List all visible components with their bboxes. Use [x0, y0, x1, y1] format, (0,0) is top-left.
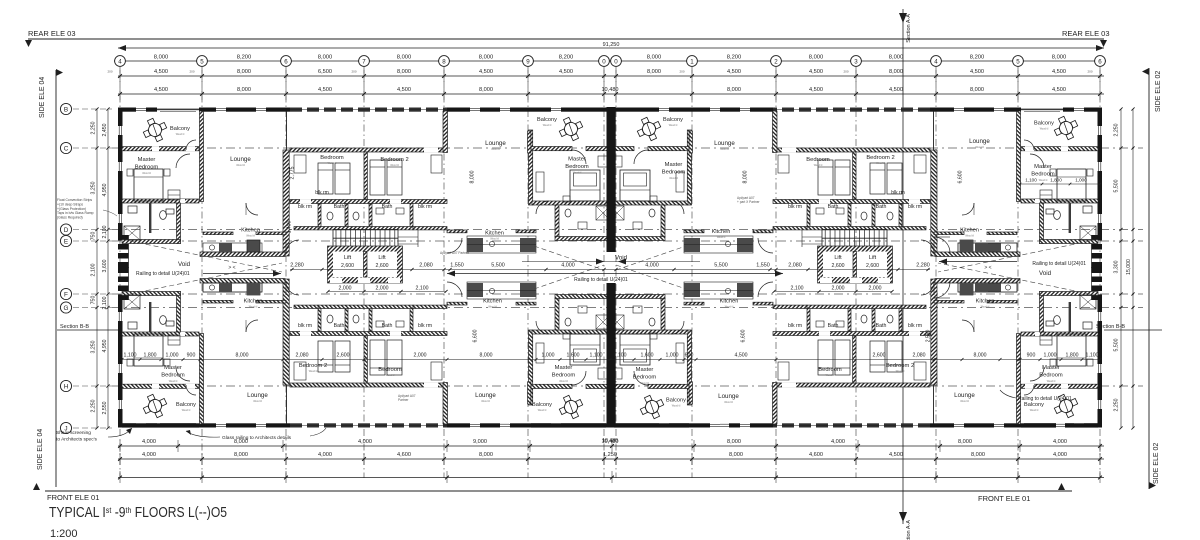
- svg-text:1,400: 1,400: [287, 221, 293, 234]
- svg-text:1,100: 1,100: [1086, 353, 1099, 359]
- svg-text:1,000: 1,000: [1075, 178, 1087, 183]
- side elevation 04 marker top: [56, 69, 63, 76]
- svg-text:> <: > <: [228, 265, 235, 271]
- svg-text:2,600: 2,600: [337, 353, 350, 359]
- side elevation 02 marker top: [1142, 68, 1149, 75]
- svg-text:4,000: 4,000: [358, 439, 372, 445]
- svg-text:4,500: 4,500: [154, 87, 168, 93]
- svg-text:1,800: 1,800: [144, 353, 157, 359]
- svg-text:Bedroom: Bedroom: [662, 170, 686, 176]
- grid bubble 5: [197, 56, 208, 67]
- svg-text:8,000: 8,000: [236, 353, 249, 359]
- svg-text:2,600: 2,600: [341, 263, 354, 269]
- svg-text:Void: Void: [615, 255, 628, 262]
- svg-text:2,600: 2,600: [866, 263, 879, 269]
- svg-text:8,000: 8,000: [237, 87, 251, 93]
- svg-text:3,300: 3,300: [1114, 260, 1120, 273]
- svg-text:1,800: 1,800: [1066, 353, 1079, 359]
- svg-text:+(10 deep Straps: +(10 deep Straps: [57, 202, 83, 206]
- rear elevation marker right: [1100, 40, 1107, 47]
- grid row bubble G: [60, 302, 71, 313]
- svg-text:200: 200: [679, 70, 684, 74]
- kitchen counter right-end top: [958, 243, 1017, 252]
- staircase right core: [802, 230, 887, 248]
- side elevation 04 line: [55, 70, 57, 487]
- svg-text:Master: Master: [164, 365, 182, 371]
- lift dimension row right: [774, 291, 892, 293]
- svg-text:8,200: 8,200: [559, 55, 574, 61]
- svg-text:1,100: 1,100: [1025, 178, 1037, 183]
- svg-text:Kitchen: Kitchen: [960, 228, 979, 234]
- svg-text:Lounge: Lounge: [718, 393, 739, 400]
- svg-text:Bedroom: Bedroom: [161, 373, 185, 379]
- svg-text:Section A-A: Section A-A: [906, 520, 912, 540]
- svg-text:4,500: 4,500: [889, 87, 903, 93]
- entry door arc right end bottom: [934, 282, 950, 298]
- svg-text:D: D: [64, 227, 69, 234]
- svg-text:Shear screening: Shear screening: [56, 430, 91, 436]
- svg-text:Bath: Bath: [828, 204, 839, 210]
- grid bubble 5: [1013, 56, 1024, 67]
- grid bubble 0: [611, 56, 622, 67]
- svg-text:Bedroom 2: Bedroom 2: [886, 363, 914, 369]
- svg-text:2,450: 2,450: [102, 123, 108, 136]
- lift dimension row left: [328, 291, 446, 293]
- svg-text:Balcony: Balcony: [1024, 402, 1044, 408]
- svg-text:Taps in b/w Glass Ramp: Taps in b/w Glass Ramp: [57, 211, 94, 215]
- building walls top-left quadrant: [118, 107, 613, 268]
- svg-text:Bath: Bath: [334, 204, 345, 210]
- svg-text:2,600: 2,600: [873, 353, 886, 359]
- svg-text:2,100: 2,100: [102, 296, 108, 309]
- rear elevation line: [28, 38, 1104, 40]
- svg-text:blk rm: blk rm: [908, 323, 922, 329]
- svg-text:TYPICAL Ist -9th FLOORS L(--: TYPICAL Ist -9th FLOORS L(--)O5: [49, 505, 227, 521]
- staircase left core: [333, 230, 418, 248]
- svg-text:4,000: 4,000: [1053, 439, 1067, 445]
- svg-text:8,000: 8,000: [727, 87, 741, 93]
- section A-A line: [902, 9, 904, 524]
- svg-text:Balcony: Balcony: [170, 126, 190, 132]
- svg-text:4,500: 4,500: [1052, 69, 1066, 75]
- svg-text:4,500: 4,500: [318, 87, 332, 93]
- svg-text:Wood til: Wood til: [1030, 409, 1039, 412]
- grid bubble 7: [359, 56, 370, 67]
- svg-text:4,000: 4,000: [1053, 452, 1067, 458]
- svg-text:Kitchen: Kitchen: [485, 231, 504, 237]
- svg-text:2,080: 2,080: [788, 263, 802, 269]
- svg-text:Lift: Lift: [344, 255, 352, 261]
- svg-text:Bedroom: Bedroom: [806, 157, 830, 163]
- svg-text:4,500: 4,500: [397, 87, 411, 93]
- svg-text:Wood til: Wood til: [725, 306, 734, 309]
- svg-text:+(Glass Protection): +(Glass Protection): [57, 207, 86, 211]
- svg-text:Master: Master: [568, 157, 586, 163]
- svg-text:Railing to detail U(24)01: Railing to detail U(24)01: [574, 277, 628, 283]
- svg-text:Lounge: Lounge: [475, 392, 496, 399]
- upper dimension line 3: [118, 93, 1104, 95]
- svg-text:2,600: 2,600: [376, 263, 389, 269]
- svg-text:Bath: Bath: [334, 323, 345, 329]
- svg-text:B: B: [64, 106, 68, 113]
- svg-text:Bedroom: Bedroom: [552, 373, 576, 379]
- svg-text:8,000: 8,000: [479, 452, 493, 458]
- svg-text:Kitchen: Kitchen: [720, 299, 739, 305]
- svg-text:2,100: 2,100: [102, 225, 108, 238]
- svg-text:Wood til: Wood til: [724, 401, 733, 404]
- svg-text:8,000: 8,000: [237, 69, 251, 75]
- svg-text:4,500: 4,500: [970, 69, 984, 75]
- entry door arc right end top: [934, 237, 950, 253]
- svg-text:H: H: [64, 383, 69, 390]
- svg-text:SIDE ELE 02: SIDE ELE 02: [1153, 443, 1160, 484]
- svg-text:8,000: 8,000: [743, 170, 749, 183]
- svg-text:8,000: 8,000: [470, 170, 476, 183]
- mid dimension row: [290, 269, 930, 271]
- kitchen counter unit1 bottom: [203, 283, 262, 292]
- svg-text:8,000: 8,000: [889, 55, 904, 61]
- horizontal grid lines dashed: [112, 147, 1143, 149]
- svg-text:E: E: [64, 238, 68, 245]
- side elevation 02 line: [1148, 68, 1150, 489]
- grid bubble 2: [771, 56, 782, 67]
- svg-text:2,250: 2,250: [91, 399, 97, 412]
- svg-text:5: 5: [200, 58, 204, 65]
- svg-text:2,100: 2,100: [791, 286, 804, 292]
- svg-text:Wood til: Wood til: [717, 236, 726, 239]
- svg-text:2,100: 2,100: [416, 286, 429, 292]
- svg-text:Wood til: Wood til: [182, 409, 191, 412]
- upper dimension line 2: [118, 75, 1104, 77]
- svg-text:8,000: 8,000: [318, 55, 333, 61]
- svg-text:Bath: Bath: [828, 323, 839, 329]
- svg-text:4: 4: [118, 58, 122, 65]
- bottom interior dimension row: [122, 359, 1100, 361]
- void right railing line: [939, 261, 1017, 263]
- svg-text:Lift: Lift: [834, 255, 842, 261]
- left dimension chain outer: [107, 109, 109, 428]
- svg-text:4,600: 4,600: [809, 452, 823, 458]
- void left cross bracing: [130, 241, 282, 272]
- svg-text:Wood til: Wood til: [488, 306, 497, 309]
- svg-text:Railing to detail U(24)01: Railing to detail U(24)01: [1018, 396, 1072, 402]
- svg-text:8,000: 8,000: [1052, 55, 1067, 61]
- svg-text:8,000: 8,000: [647, 69, 661, 75]
- svg-text:8,000: 8,000: [809, 55, 824, 61]
- svg-text:200: 200: [107, 70, 112, 74]
- side elevation 02 marker bottom: [1149, 482, 1156, 489]
- svg-text:Wood til: Wood til: [1040, 128, 1049, 131]
- svg-text:2,000: 2,000: [376, 286, 389, 292]
- svg-text:2,000: 2,000: [339, 286, 352, 292]
- svg-text:200: 200: [189, 70, 194, 74]
- svg-text:Balcony: Balcony: [666, 398, 686, 404]
- svg-text:Wood til: Wood til: [176, 133, 185, 136]
- svg-text:Partner: Partner: [398, 398, 409, 402]
- svg-text:5,500: 5,500: [491, 263, 505, 269]
- svg-text:8,000: 8,000: [971, 452, 985, 458]
- svg-text:1,600: 1,600: [567, 353, 580, 359]
- svg-text:2,550: 2,550: [102, 401, 108, 414]
- svg-text:2,000: 2,000: [869, 286, 882, 292]
- void right cross bracing: [938, 263, 1090, 294]
- svg-text:Glass railing to Architects de: Glass railing to Architects details: [222, 435, 292, 441]
- svg-text:blk rm: blk rm: [788, 323, 802, 329]
- svg-text:2,250: 2,250: [1114, 398, 1120, 411]
- svg-text:750: 750: [91, 296, 97, 305]
- svg-text:6,600: 6,600: [958, 170, 964, 183]
- svg-text:Section A-A: Section A-A: [906, 14, 912, 43]
- lift shaft right core: [818, 246, 893, 283]
- svg-text:9,000: 9,000: [473, 439, 487, 445]
- svg-text:Wood til: Wood til: [896, 370, 905, 373]
- svg-text:2: 2: [774, 58, 778, 65]
- svg-text:6,500: 6,500: [318, 69, 332, 75]
- svg-text:Balcony: Balcony: [532, 402, 552, 408]
- svg-text:5,500: 5,500: [1114, 179, 1120, 192]
- svg-text:Bedroom: Bedroom: [135, 165, 159, 171]
- svg-text:4,000: 4,000: [318, 452, 332, 458]
- svg-text:Bedroom: Bedroom: [320, 155, 344, 161]
- building walls bottom-right quadrant: [608, 267, 1103, 428]
- svg-text:1,000: 1,000: [542, 353, 555, 359]
- svg-text:0: 0: [602, 58, 606, 65]
- svg-text:2,080: 2,080: [296, 353, 309, 359]
- svg-text:8: 8: [442, 58, 446, 65]
- svg-text:Bedroom: Bedroom: [378, 367, 402, 373]
- svg-text:Master: Master: [1034, 164, 1052, 170]
- svg-text:Wood til: Wood til: [814, 164, 823, 167]
- svg-text:Balcony: Balcony: [176, 402, 196, 408]
- balcony table 8: [1052, 392, 1081, 421]
- svg-text:1,000: 1,000: [166, 353, 179, 359]
- svg-text:blk rm: blk rm: [418, 204, 432, 210]
- grid bubble 3: [851, 56, 862, 67]
- grid row bubble C: [60, 142, 71, 153]
- svg-text:blk rm: blk rm: [788, 204, 802, 210]
- svg-text:1: 1: [690, 58, 694, 65]
- svg-text:2,250: 2,250: [1114, 123, 1120, 136]
- svg-text:Master: Master: [665, 162, 683, 168]
- svg-text:Wood til: Wood til: [538, 409, 547, 412]
- svg-text:1,100: 1,100: [614, 353, 627, 359]
- overall dimension line 91,250: [118, 47, 1104, 49]
- svg-text:3,600: 3,600: [102, 259, 108, 272]
- svg-text:blk rm: blk rm: [298, 323, 312, 329]
- svg-text:8,000: 8,000: [480, 353, 493, 359]
- svg-text:9: 9: [526, 58, 530, 65]
- balcony table 4: [1052, 114, 1081, 143]
- svg-text:2,550: 2,550: [926, 330, 932, 343]
- bottom dimension line 1: [118, 445, 1104, 447]
- svg-text:2,250: 2,250: [91, 121, 97, 134]
- svg-text:Wood til: Wood til: [826, 374, 835, 377]
- svg-text:Wood til: Wood til: [1039, 179, 1048, 182]
- svg-text:Kitchen: Kitchen: [976, 299, 995, 305]
- svg-text:15,000: 15,000: [1126, 259, 1132, 275]
- svg-text:2,775: 2,775: [290, 166, 296, 179]
- svg-text:Wood til: Wood til: [640, 382, 649, 385]
- right dimension chain inner: [1120, 109, 1122, 428]
- svg-text:1,250: 1,250: [603, 452, 617, 458]
- svg-text:Bedroom 2: Bedroom 2: [380, 157, 408, 163]
- svg-text:blk rm: blk rm: [418, 323, 432, 329]
- svg-text:200: 200: [351, 70, 356, 74]
- svg-text:Apt/part A07 Partner: Apt/part A07 Partner: [440, 251, 470, 255]
- bottom exterior wall solid segments: [122, 423, 199, 427]
- svg-text:900: 900: [187, 353, 196, 359]
- grid row bubble E: [60, 235, 71, 246]
- grid bubble 0: [599, 56, 610, 67]
- bottom dimension line 3: [118, 477, 1104, 479]
- svg-text:Wood til: Wood til: [960, 400, 969, 403]
- svg-text:FRONT ELE 01: FRONT ELE 01: [47, 493, 99, 502]
- svg-text:SIDE ELE 04: SIDE ELE 04: [37, 429, 44, 470]
- void center railing lines: [447, 273, 783, 275]
- svg-text:Bedroom: Bedroom: [1039, 373, 1063, 379]
- svg-text:4,600: 4,600: [397, 452, 411, 458]
- svg-text:Void: Void: [178, 261, 191, 268]
- svg-text:SIDE ELE 02: SIDE ELE 02: [1155, 71, 1162, 112]
- svg-text:1,000: 1,000: [666, 353, 679, 359]
- svg-text:200: 200: [1087, 70, 1092, 74]
- front elevation marker right: [1058, 483, 1065, 490]
- svg-text:Wood til: Wood til: [386, 374, 395, 377]
- svg-text:4,000: 4,000: [831, 439, 845, 445]
- svg-text:8,200: 8,200: [727, 55, 742, 61]
- svg-text:Bath: Bath: [876, 204, 887, 210]
- svg-text:7: 7: [362, 58, 366, 65]
- svg-text:1,600: 1,600: [641, 353, 654, 359]
- svg-text:Lounge: Lounge: [969, 138, 990, 145]
- svg-text:5,500: 5,500: [714, 263, 728, 269]
- svg-text:2,600: 2,600: [832, 263, 845, 269]
- svg-text:Bath: Bath: [876, 323, 887, 329]
- svg-text:Railing to detail U(24)01: Railing to detail U(24)01: [1032, 261, 1086, 267]
- void center cross bracing: [534, 246, 604, 270]
- svg-text:Wood til: Wood til: [965, 235, 974, 238]
- svg-text:to Architects spec's: to Architects spec's: [56, 437, 98, 443]
- svg-text:F: F: [64, 291, 68, 298]
- svg-text:Wood til: Wood til: [559, 380, 568, 383]
- section B-B line left: [57, 329, 118, 331]
- building walls bottom-left quadrant: [118, 267, 613, 428]
- grid bubble 1: [687, 56, 698, 67]
- left dimension chain inner: [96, 109, 98, 428]
- svg-text:10,480: 10,480: [602, 438, 618, 444]
- svg-text:blk rm: blk rm: [315, 190, 329, 196]
- svg-text:4,500: 4,500: [889, 452, 903, 458]
- svg-text:1,100: 1,100: [124, 353, 137, 359]
- balcony table 5: [141, 392, 170, 421]
- svg-text:91,250: 91,250: [603, 42, 620, 48]
- svg-text:Wood til: Wood til: [328, 162, 337, 165]
- balcony table 7: [638, 393, 667, 422]
- svg-text:1,550: 1,550: [756, 263, 770, 269]
- svg-text:1,000: 1,000: [1044, 353, 1057, 359]
- svg-text:200: 200: [843, 70, 848, 74]
- svg-text:Kitchen: Kitchen: [241, 228, 260, 234]
- svg-text:Balcony: Balcony: [663, 117, 683, 123]
- svg-text:Balcony: Balcony: [537, 117, 557, 123]
- svg-text:8,200: 8,200: [970, 55, 985, 61]
- svg-text:Master: Master: [138, 157, 156, 163]
- grid bubble 9: [523, 56, 534, 67]
- svg-text:8,000: 8,000: [397, 69, 411, 75]
- svg-text:8,000: 8,000: [958, 439, 972, 445]
- building walls top-right quadrant: [608, 107, 1103, 268]
- grid bubble 4: [115, 56, 126, 67]
- balcony table 6: [557, 393, 586, 422]
- svg-text:8,000: 8,000: [479, 87, 493, 93]
- svg-text:8,000: 8,000: [970, 87, 984, 93]
- svg-text:Lounge: Lounge: [954, 392, 975, 399]
- grid bubble 6: [281, 56, 292, 67]
- svg-text:Wood til: Wood til: [491, 148, 500, 151]
- svg-text:REAR ELE 03: REAR ELE 03: [28, 29, 76, 38]
- svg-text:Wood til: Wood til: [669, 177, 678, 180]
- svg-text:Wood til: Wood til: [249, 306, 258, 309]
- svg-text:Wood til: Wood til: [236, 164, 245, 167]
- svg-text:6,600: 6,600: [741, 329, 747, 342]
- svg-text:3: 3: [854, 58, 858, 65]
- svg-text:5: 5: [1016, 58, 1020, 65]
- svg-text:2,000: 2,000: [414, 353, 427, 359]
- svg-text:Bedroom: Bedroom: [633, 375, 657, 381]
- kitchen counter right-end bottom: [958, 283, 1017, 292]
- svg-text:5,500: 5,500: [1114, 338, 1120, 351]
- svg-text:Bedroom: Bedroom: [818, 367, 842, 373]
- svg-text:Wood til: Wood til: [981, 306, 990, 309]
- svg-text:6: 6: [284, 58, 288, 65]
- svg-text:1,100: 1,100: [590, 353, 603, 359]
- svg-text:Balcony: Balcony: [1034, 121, 1054, 127]
- svg-text:2,100: 2,100: [91, 263, 97, 276]
- svg-text:Kitchen: Kitchen: [483, 299, 502, 305]
- svg-text:4,500: 4,500: [559, 69, 573, 75]
- svg-text:Wood til: Wood til: [169, 380, 178, 383]
- svg-text:Master: Master: [636, 367, 654, 373]
- svg-text:Wood til: Wood til: [573, 172, 582, 175]
- balcony table 2: [557, 115, 586, 144]
- lift shaft left core: [328, 246, 403, 283]
- svg-text:Bath: Bath: [382, 323, 393, 329]
- grid row bubble J: [60, 422, 71, 433]
- svg-text:Wood til: Wood til: [876, 162, 885, 165]
- svg-text:Wood til: Wood til: [975, 146, 984, 149]
- svg-text:Wood til: Wood til: [669, 124, 678, 127]
- grid bubble 4: [931, 56, 942, 67]
- svg-text:750: 750: [91, 232, 97, 241]
- svg-text:4,950: 4,950: [102, 183, 108, 196]
- svg-text:2,080: 2,080: [913, 353, 926, 359]
- svg-text:4,500: 4,500: [809, 69, 823, 75]
- svg-text:Bedroom: Bedroom: [565, 164, 589, 170]
- svg-text:Wood til: Wood til: [390, 164, 399, 167]
- svg-text:Wood til: Wood til: [481, 400, 490, 403]
- svg-text:900: 900: [1027, 353, 1036, 359]
- svg-text:6: 6: [1098, 58, 1102, 65]
- grid row bubble H: [60, 380, 71, 391]
- svg-text:G: G: [64, 305, 69, 312]
- svg-text:blk rm: blk rm: [298, 204, 312, 210]
- svg-text:8,000: 8,000: [729, 452, 743, 458]
- svg-text:Lounge: Lounge: [230, 156, 251, 163]
- svg-text:4: 4: [934, 58, 938, 65]
- svg-text:4,500: 4,500: [479, 69, 493, 75]
- svg-text:Lift: Lift: [869, 255, 877, 261]
- svg-text:Wood til: Wood til: [246, 235, 255, 238]
